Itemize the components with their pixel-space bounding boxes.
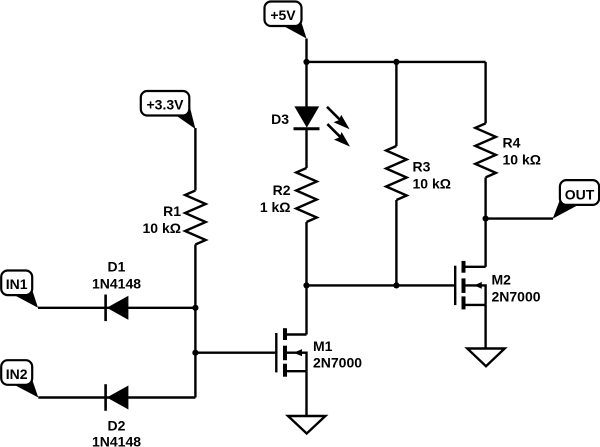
resistor R3 bbox=[386, 146, 407, 200]
svg-text:R2: R2 bbox=[273, 182, 291, 198]
svg-text:D3: D3 bbox=[271, 111, 289, 127]
wire top rail to R4 bbox=[484, 62, 486, 124]
wire R1 bottom down to D2 bbox=[194, 245, 196, 398]
svg-text:+3.3V: +3.3V bbox=[147, 97, 185, 113]
wire +3.3V stub to R1 top bbox=[194, 128, 196, 191]
wire top rail to R3 bbox=[395, 62, 397, 146]
ground below M2 bbox=[467, 349, 504, 367]
wire R3 bottom to gate rail bbox=[395, 200, 397, 285]
svg-text:IN1: IN1 bbox=[6, 276, 28, 292]
svg-text:1 kΩ: 1 kΩ bbox=[260, 199, 291, 215]
ground below M1 bbox=[288, 416, 325, 434]
wire M2 source to ground bbox=[484, 305, 486, 349]
wire +5V stub down to top rail and LED anode bbox=[305, 39, 307, 108]
node IN1 flag bbox=[1, 271, 38, 308]
svg-text:M1: M1 bbox=[313, 338, 333, 354]
svg-text:D2: D2 bbox=[108, 418, 126, 434]
svg-text:2N7000: 2N7000 bbox=[313, 355, 362, 371]
svg-text:2N7000: 2N7000 bbox=[492, 289, 541, 305]
wire top rail +5V bbox=[307, 61, 486, 63]
junction OUT node bbox=[483, 216, 489, 222]
wire gate rail to M2 bbox=[307, 284, 456, 286]
junction D1 node bbox=[192, 305, 198, 311]
resistor R2 bbox=[296, 168, 317, 222]
svg-text:D1: D1 bbox=[108, 259, 126, 275]
svg-text:+5V: +5V bbox=[270, 7, 296, 23]
junction at +5V top rail left bbox=[303, 59, 309, 65]
svg-text:M2: M2 bbox=[492, 272, 512, 288]
wire IN1 to D1 to node bbox=[38, 307, 195, 309]
svg-text:OUT: OUT bbox=[565, 186, 595, 202]
wire OUT node to M2 drain bbox=[484, 219, 486, 267]
svg-text:10 kΩ: 10 kΩ bbox=[143, 220, 181, 236]
svg-text:10 kΩ: 10 kΩ bbox=[413, 176, 451, 192]
wire R4 bottom to OUT node bbox=[484, 177, 486, 218]
junction gate rail R3 bbox=[393, 282, 399, 288]
transistor M2 bbox=[455, 261, 485, 310]
wire OUT node to OUT flag bbox=[486, 217, 553, 219]
diode D1 bbox=[106, 295, 129, 322]
svg-text:1N4148: 1N4148 bbox=[92, 276, 141, 292]
resistor R1 bbox=[185, 191, 206, 245]
svg-text:10 kΩ: 10 kΩ bbox=[503, 152, 541, 168]
wire LED cathode to R2 top bbox=[305, 129, 307, 168]
wire gate node to M1 gate bbox=[195, 352, 276, 354]
power flag +5V bbox=[265, 2, 307, 39]
svg-text:IN2: IN2 bbox=[6, 366, 28, 382]
svg-text:1N4148: 1N4148 bbox=[92, 434, 141, 447]
wire M1 source to ground bbox=[305, 371, 307, 416]
power flag +3.3V bbox=[141, 91, 196, 129]
wire IN2 to D2 to node bbox=[38, 396, 195, 398]
transistor M1 bbox=[276, 328, 306, 377]
junction top rail R3 branch bbox=[393, 59, 399, 65]
junction gate node bbox=[192, 350, 198, 356]
wire R2 bottom to M1 drain bbox=[305, 222, 307, 335]
svg-text:R1: R1 bbox=[163, 203, 181, 219]
LED D3 bbox=[294, 106, 351, 146]
resistor R4 bbox=[475, 123, 496, 177]
svg-text:R4: R4 bbox=[503, 135, 521, 151]
junction gate rail left bbox=[303, 282, 309, 288]
node IN2 flag bbox=[1, 360, 38, 397]
diode D2 bbox=[106, 384, 129, 411]
svg-text:R3: R3 bbox=[413, 159, 431, 175]
node OUT flag bbox=[553, 180, 599, 219]
